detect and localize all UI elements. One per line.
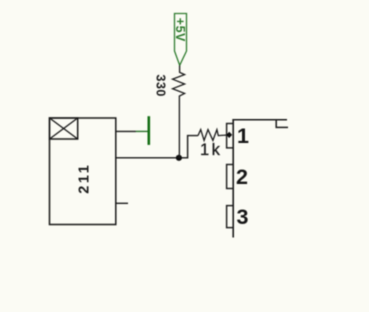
svg-text:2: 2	[236, 165, 248, 189]
svg-text:k: k	[212, 141, 221, 159]
svg-text:3: 3	[237, 205, 249, 229]
svg-text:+5V: +5V	[173, 18, 187, 42]
svg-text:211: 211	[77, 163, 93, 194]
svg-text:1: 1	[200, 141, 209, 159]
svg-text:330: 330	[154, 75, 168, 97]
svg-text:1: 1	[237, 124, 249, 148]
